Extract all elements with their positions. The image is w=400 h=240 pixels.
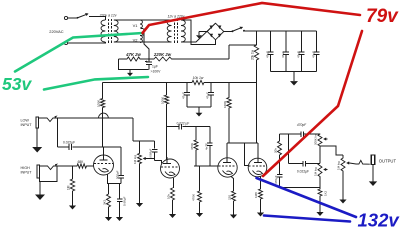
transformer T2 secondary: [181, 20, 185, 42]
svg-text:10k 1w: 10k 1w: [193, 76, 204, 80]
svg-text:47K 2w: 47K 2w: [125, 52, 141, 57]
capacitor 0.022uF coupling: [167, 122, 210, 130]
svg-text:1M: 1M: [67, 185, 71, 190]
wire: [114, 19, 172, 21]
wire: [226, 143, 228, 158]
ground cap bank: [290, 72, 298, 86]
triode V1b: [161, 159, 180, 178]
ground 0.68uF: [116, 212, 123, 221]
svg-text:53v: 53v: [2, 74, 32, 94]
wire: [224, 31, 232, 33]
capacitor 470pF: [297, 123, 307, 137]
svg-text:V2: V2: [133, 38, 139, 43]
wire: [280, 187, 321, 189]
svg-text:3K3: 3K3: [103, 199, 107, 205]
svg-text:220: 220: [228, 195, 232, 200]
wire: [228, 45, 230, 59]
ground pot: [136, 198, 143, 207]
svg-text:1K2: 1K2: [324, 190, 328, 196]
svg-text:47µF: 47µF: [312, 51, 316, 58]
svg-text:20k 1w: 20k 1w: [251, 49, 255, 60]
jack LOW contact: [39, 116, 58, 122]
jack OUTPUT: [371, 155, 375, 165]
label HIGH INPUT: [21, 166, 33, 175]
resistor 3K3 cathode: [103, 184, 111, 213]
ground OUTPUT jack: [369, 165, 377, 187]
transformer T2 core: [174, 19, 177, 43]
capacitor 1uF: [145, 59, 161, 74]
svg-text:1M log: 1M log: [337, 161, 341, 170]
resistor 1M8 cathode: [254, 189, 263, 209]
ground V2b cathode: [257, 209, 264, 217]
svg-text:>100V: >100V: [151, 70, 162, 74]
wire: [140, 28, 144, 29]
wire: [187, 106, 211, 108]
potentiometer 1M log input: [133, 141, 142, 198]
transformer T2 primary: [167, 20, 171, 42]
svg-text:470K: 470K: [190, 143, 194, 150]
svg-text:68K: 68K: [78, 160, 85, 164]
capacitor 4n7 grid: [204, 127, 212, 166]
resistor 47K 2w: [125, 52, 141, 61]
capacitor 0.68uF cathode: [117, 184, 127, 213]
wire tone mid: [289, 163, 320, 165]
ground V1b cathode: [169, 207, 176, 218]
svg-text:220v à 12v: 220v à 12v: [98, 14, 116, 18]
svg-text:47µF: 47µF: [266, 51, 270, 58]
transformer T2 label: [167, 15, 184, 19]
transformer T1 core: [109, 19, 112, 43]
pot wiper arrow: [323, 137, 327, 140]
resistor 100K plate V1: [97, 83, 105, 148]
wire tone top: [280, 133, 321, 135]
ground bias: [127, 70, 133, 77]
wire HT bus: [245, 30, 317, 32]
wire B+ rail: [103, 82, 257, 84]
svg-text:20k: 20k: [274, 148, 278, 153]
transformer T1 primary: [101, 20, 105, 42]
wire: [40, 166, 57, 181]
ground master pot: [339, 196, 346, 204]
wire cathode V1a: [108, 175, 122, 184]
wire plate node: [74, 147, 121, 155]
svg-text:10k: 10k: [167, 194, 171, 199]
svg-text:79v: 79v: [366, 6, 399, 27]
svg-text:0.068µF: 0.068µF: [149, 148, 153, 159]
resistor 10k cathode V1b: [167, 188, 175, 207]
node heater midpoint: [143, 29, 145, 36]
triode V1a: [94, 155, 114, 175]
svg-text:470µF: 470µF: [274, 175, 278, 184]
wire: [89, 17, 105, 21]
switch S2 HT: [232, 27, 246, 33]
wire bias row: [119, 58, 230, 60]
wire grid V2b: [245, 143, 249, 166]
label 220VAC: [49, 29, 63, 34]
resistor 68K: [59, 160, 94, 168]
wire: [320, 146, 343, 155]
mains terminal bottom: [64, 41, 67, 44]
wire: [148, 159, 162, 164]
ground 1M: [69, 202, 76, 210]
ground decoup: [196, 107, 203, 117]
capacitor 0.068uF: [149, 141, 158, 160]
svg-text:1µF: 1µF: [152, 65, 158, 69]
wire cathode V2a: [231, 177, 234, 192]
jack OUTPUT contact: [350, 160, 370, 164]
svg-text:0.022µF: 0.022µF: [63, 141, 75, 145]
resistor 100K plate V2: [161, 83, 169, 160]
wire: [199, 31, 207, 33]
resistor 220K 2w: [153, 52, 172, 61]
label 132v: [358, 210, 400, 231]
svg-text:0.68µF: 0.68µF: [123, 196, 127, 206]
heater V2 coil: [140, 36, 142, 43]
wire bias box: [119, 59, 149, 70]
wire: [229, 44, 257, 46]
wire: [257, 143, 259, 158]
wire: [57, 118, 59, 147]
ground 3K3: [105, 212, 112, 221]
svg-text:132v: 132v: [358, 210, 400, 231]
jack HIGH contact: [40, 164, 59, 170]
capacitor 0.022uF low: [58, 141, 103, 151]
pot wiper arrow: [346, 161, 349, 164]
wire: [133, 140, 155, 142]
pot wiper arrow: [323, 168, 327, 171]
pot wiper arrow: [143, 157, 148, 160]
wire: [68, 42, 106, 43]
svg-text:100K: 100K: [97, 100, 101, 107]
wire: [181, 20, 216, 45]
wire plate bus: [227, 142, 258, 144]
ground LOW jack: [32, 128, 42, 153]
capacitor 47uF decoup 2: [206, 83, 215, 108]
label OUTPUT: [379, 158, 397, 163]
capacitor 470uF: [274, 173, 282, 188]
svg-text:OUTPUT: OUTPUT: [379, 158, 397, 163]
wire cap bank bottom: [271, 71, 317, 73]
wire: [181, 23, 216, 42]
resistor 10k 1w: [192, 76, 204, 85]
potentiometer 200K lin: [314, 134, 323, 146]
svg-text:LOW: LOW: [21, 119, 30, 123]
resistor 470K grid: [190, 127, 198, 166]
svg-text:200K lin: 200K lin: [314, 134, 318, 145]
resistor 220 cathode: [228, 191, 236, 209]
resistor 1K2: [318, 189, 328, 205]
wire cathode V2b: [260, 176, 262, 189]
capacitor 47uF decoup 1: [182, 83, 191, 108]
capacitor 47uF bank 4: [312, 31, 320, 72]
heater V1 coil: [140, 20, 142, 28]
svg-text:220K 2w: 220K 2w: [153, 52, 172, 57]
wire bias feed: [144, 35, 149, 59]
jack HIGH INPUT: [37, 165, 40, 178]
wire: [256, 83, 258, 144]
resistor 20k tone: [274, 134, 282, 173]
svg-text:470K: 470K: [192, 194, 196, 201]
wire plate V1b: [166, 155, 169, 159]
svg-text:INPUT: INPUT: [21, 123, 33, 127]
svg-text:220VAC: 220VAC: [49, 29, 63, 34]
svg-text:47µF: 47µF: [296, 51, 300, 58]
wire: [288, 134, 290, 164]
annotation green line to heater midpoint: [15, 33, 143, 72]
ground 1K2: [316, 205, 323, 216]
heater V2 label: [133, 38, 139, 43]
svg-text:0.022µF: 0.022µF: [297, 170, 309, 174]
svg-text:4n7F: 4n7F: [204, 143, 208, 150]
capacitor 0.022uF tone: [297, 161, 309, 174]
svg-text:47µF: 47µF: [281, 51, 285, 58]
annotation red line to cathode: [263, 31, 362, 176]
svg-text:47µF: 47µF: [182, 92, 186, 99]
label 79v: [366, 6, 399, 27]
svg-text:100K: 100K: [161, 97, 165, 104]
ground grid leak: [196, 208, 203, 217]
resistor 470K grid leak: [192, 166, 202, 208]
capacitor 47uF bank 2: [281, 31, 289, 72]
resistor 100K plate V3: [223, 83, 231, 144]
svg-text:0.022 µF: 0.022 µF: [177, 122, 190, 126]
bridge rectifier: [207, 23, 224, 40]
transformer T1 secondary: [114, 20, 118, 42]
wire low input hop: [58, 113, 133, 118]
svg-text:1M8: 1M8: [254, 192, 258, 198]
triode V2b: [248, 158, 267, 177]
capacitor 47uF bank 1: [266, 31, 274, 72]
ground HIGH jack: [35, 181, 45, 200]
heater V1 label: [133, 23, 139, 28]
svg-text:1M log: 1M log: [133, 155, 137, 164]
potentiometer 1M log master: [337, 155, 346, 196]
wire: [114, 41, 172, 43]
transformer T1 label: [98, 14, 116, 18]
svg-text:47µF: 47µF: [206, 92, 210, 99]
wire: [140, 34, 144, 37]
wire cathode V1b: [173, 178, 175, 188]
triode V2a: [218, 158, 237, 178]
svg-text:HIGH: HIGH: [21, 166, 31, 170]
svg-text:470pF: 470pF: [297, 123, 307, 127]
svg-text:100K: 100K: [223, 101, 227, 108]
wire grid V2a: [194, 165, 218, 167]
mains terminal top: [64, 16, 67, 19]
jack LOW INPUT: [36, 117, 39, 128]
svg-text:INPUT: INPUT: [21, 171, 33, 175]
potentiometer 1M log tone: [314, 146, 323, 189]
annotation blue line lower: [264, 216, 350, 222]
capacitor 500pF: [116, 147, 124, 184]
resistor 1M grid: [67, 166, 75, 202]
annotation red line 79v: [143, 3, 361, 33]
ground V2a cathode: [230, 209, 237, 219]
wire: [132, 118, 134, 141]
ground at bridge: [196, 32, 202, 39]
svg-text:1M log: 1M log: [314, 167, 318, 176]
annotation green line to bias ground: [44, 77, 148, 90]
capacitor 47uF bank 3: [296, 31, 304, 72]
label LOW INPUT: [21, 119, 33, 128]
annotation blue line upper: [257, 178, 357, 217]
svg-text:500pF: 500pF: [116, 170, 120, 179]
resistor 20k 1w bleeder: [251, 31, 259, 83]
wire: [68, 17, 77, 19]
switch S1 mains: [77, 13, 89, 19]
label 53v: [2, 74, 32, 94]
svg-text:V1: V1: [133, 23, 139, 28]
